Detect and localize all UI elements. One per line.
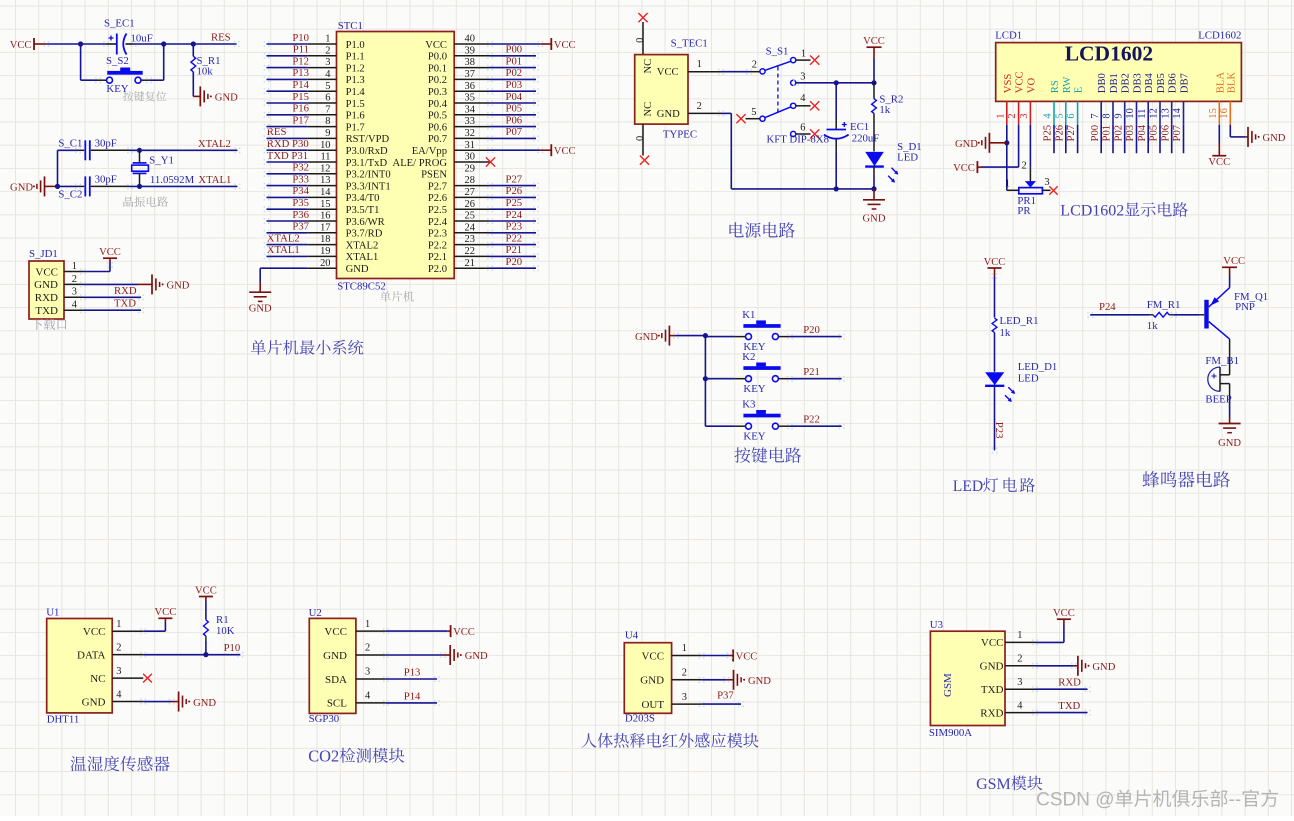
svg-text:15: 15	[1208, 108, 1219, 118]
svg-text:2: 2	[325, 45, 330, 56]
svg-text:XTAL2: XTAL2	[346, 240, 379, 251]
svg-text:12: 12	[1149, 108, 1160, 118]
svg-text:OUT: OUT	[641, 699, 664, 711]
svg-text:P22: P22	[803, 414, 820, 426]
svg-text:GND: GND	[748, 676, 771, 687]
svg-text:U4: U4	[625, 629, 639, 641]
svg-text:NC: NC	[643, 102, 654, 117]
svg-text:P3.6/WR: P3.6/WR	[346, 217, 386, 228]
svg-text:2: 2	[752, 59, 757, 70]
svg-text:GSM: GSM	[976, 776, 1011, 793]
svg-text:NC: NC	[643, 59, 654, 74]
svg-text:P25: P25	[1042, 125, 1054, 142]
svg-text:13: 13	[320, 175, 330, 186]
svg-text:LED_D1: LED_D1	[1018, 361, 1058, 373]
svg-text:1: 1	[72, 261, 77, 272]
svg-text:VCC: VCC	[863, 36, 885, 47]
svg-text:S_JD1: S_JD1	[29, 248, 58, 260]
svg-text:P2.3: P2.3	[428, 229, 447, 240]
svg-text:P2.4: P2.4	[428, 217, 448, 228]
svg-text:30pF: 30pF	[95, 174, 117, 186]
svg-text:28: 28	[465, 175, 475, 186]
svg-text:21: 21	[465, 258, 475, 269]
svg-text:32: 32	[465, 128, 475, 139]
svg-text:1: 1	[697, 59, 702, 70]
svg-text:VCC: VCC	[554, 146, 576, 157]
svg-text:RW: RW	[1062, 77, 1073, 93]
svg-text:P20: P20	[506, 256, 523, 268]
svg-text:2: 2	[116, 642, 121, 653]
svg-text:13: 13	[1160, 108, 1171, 118]
svg-text:DB2: DB2	[1121, 73, 1132, 93]
svg-text:VCC: VCC	[155, 607, 177, 618]
svg-text:P36: P36	[292, 209, 309, 221]
svg-text:VCC: VCC	[657, 67, 679, 78]
svg-text:24: 24	[465, 222, 476, 233]
svg-text:VCC: VCC	[953, 163, 975, 174]
svg-text:P10: P10	[292, 32, 309, 44]
svg-text:ALE/ PROG: ALE/ PROG	[393, 158, 448, 169]
svg-text:36: 36	[465, 81, 475, 92]
svg-text:1: 1	[682, 643, 687, 654]
svg-text:7: 7	[325, 104, 330, 115]
svg-text:P0.4: P0.4	[428, 99, 448, 110]
svg-text:35: 35	[465, 93, 475, 104]
svg-text:4: 4	[325, 69, 331, 80]
svg-text:P3.4/T0: P3.4/T0	[346, 193, 380, 204]
svg-text:GND: GND	[635, 332, 658, 343]
svg-text:KEY: KEY	[743, 383, 765, 395]
svg-text:39: 39	[465, 45, 475, 56]
svg-text:DB7: DB7	[1180, 73, 1191, 93]
svg-text:DB6: DB6	[1168, 73, 1179, 93]
svg-text:P13: P13	[292, 67, 309, 79]
svg-text:P0.3: P0.3	[428, 87, 447, 98]
svg-text:P26: P26	[1053, 124, 1065, 141]
svg-text:30: 30	[465, 152, 475, 163]
svg-text:STC89C52: STC89C52	[337, 280, 386, 292]
svg-text:TXD P31: TXD P31	[267, 150, 308, 162]
svg-text:VCC: VCC	[453, 627, 475, 638]
svg-text:4: 4	[1043, 113, 1054, 119]
svg-text:LED: LED	[953, 478, 983, 495]
svg-text:P0.7: P0.7	[428, 134, 447, 145]
svg-text:GND: GND	[1218, 438, 1241, 449]
svg-text:P16: P16	[292, 103, 309, 115]
svg-text:XTAL2: XTAL2	[198, 138, 231, 150]
svg-text:P03: P03	[1124, 125, 1136, 142]
svg-text:23: 23	[465, 234, 475, 245]
svg-text:FM_B1: FM_B1	[1205, 355, 1239, 367]
svg-text:5: 5	[1054, 113, 1065, 118]
svg-text:5: 5	[325, 81, 330, 92]
svg-text:BEEP: BEEP	[1205, 394, 1231, 406]
svg-text:S_S1: S_S1	[766, 46, 789, 58]
svg-text:4: 4	[1017, 700, 1023, 711]
svg-text:GND: GND	[1263, 133, 1286, 144]
svg-text:0: 0	[635, 38, 646, 43]
svg-text:P03: P03	[506, 79, 523, 91]
svg-text:RES: RES	[211, 31, 231, 43]
svg-text:10: 10	[320, 140, 330, 151]
svg-text:GND: GND	[82, 696, 106, 708]
svg-text:P1.6: P1.6	[346, 111, 365, 122]
svg-text:P2.5: P2.5	[428, 205, 447, 216]
svg-text:KFT DIP-8X8: KFT DIP-8X8	[767, 133, 830, 145]
svg-text:11.0592M: 11.0592M	[150, 174, 195, 186]
svg-text:STC1: STC1	[338, 20, 363, 32]
svg-text:1k: 1k	[1147, 320, 1158, 332]
svg-text:6: 6	[800, 122, 805, 133]
svg-text:3: 3	[1044, 177, 1049, 188]
svg-text:P20: P20	[803, 324, 820, 336]
svg-text:7: 7	[1090, 113, 1101, 118]
svg-text:K1: K1	[742, 309, 755, 321]
svg-text:VCC: VCC	[83, 626, 106, 638]
svg-text:19: 19	[320, 246, 330, 257]
svg-text:P32: P32	[292, 162, 309, 174]
svg-text:P27: P27	[506, 173, 523, 185]
svg-text:U3: U3	[930, 619, 943, 631]
svg-text:P24: P24	[506, 209, 523, 221]
svg-text:P2.1: P2.1	[428, 252, 447, 263]
svg-text:1: 1	[1005, 179, 1010, 190]
svg-text:K2: K2	[742, 351, 755, 363]
svg-text:P35: P35	[292, 197, 309, 209]
svg-text:RS: RS	[1050, 80, 1061, 93]
svg-text:GND: GND	[657, 109, 680, 120]
svg-text:SCL: SCL	[327, 698, 347, 710]
svg-text:1: 1	[801, 49, 806, 60]
svg-text:P2.7: P2.7	[428, 181, 447, 192]
svg-text:PNP: PNP	[1235, 301, 1255, 313]
svg-text:P07: P07	[506, 126, 523, 138]
svg-text:P06: P06	[1159, 124, 1171, 141]
svg-text:P3.1/TxD: P3.1/TxD	[346, 158, 388, 169]
svg-text:VCC: VCC	[195, 585, 217, 596]
svg-text:P2.0: P2.0	[428, 264, 447, 275]
svg-text:GND: GND	[640, 675, 664, 687]
svg-text:XTAL1: XTAL1	[198, 174, 231, 186]
svg-text:P37: P37	[292, 221, 309, 233]
svg-text:RXD: RXD	[35, 292, 58, 304]
svg-text:16: 16	[320, 211, 330, 222]
svg-text:TXD: TXD	[114, 298, 136, 310]
svg-text:P37: P37	[717, 690, 734, 702]
svg-text:3: 3	[1019, 113, 1030, 118]
svg-text:22: 22	[465, 246, 475, 257]
svg-text:1: 1	[995, 113, 1006, 118]
svg-text:GND: GND	[323, 650, 347, 662]
svg-text:2: 2	[682, 668, 687, 679]
svg-text:NC: NC	[90, 673, 105, 685]
svg-text:DATA: DATA	[77, 650, 106, 662]
svg-text:3: 3	[365, 667, 370, 678]
svg-text:VCC: VCC	[736, 651, 758, 662]
svg-text:P12: P12	[292, 55, 309, 67]
svg-text:P21: P21	[803, 366, 820, 378]
svg-text:2: 2	[1022, 160, 1027, 171]
svg-text:33: 33	[465, 116, 475, 127]
svg-text:1k: 1k	[879, 104, 890, 116]
svg-text:RXD: RXD	[114, 285, 137, 297]
svg-text:GND: GND	[980, 661, 1004, 673]
svg-text:31: 31	[465, 140, 475, 151]
svg-text:GND: GND	[346, 264, 369, 275]
svg-text:GND: GND	[167, 281, 190, 292]
svg-text:10: 10	[1125, 108, 1136, 118]
svg-text:VCC: VCC	[425, 40, 447, 51]
svg-text:3: 3	[116, 666, 121, 677]
svg-text:5: 5	[751, 107, 756, 118]
svg-text:P01: P01	[1101, 125, 1113, 142]
svg-text:S_Y1: S_Y1	[149, 154, 174, 166]
svg-text:P33: P33	[292, 173, 309, 185]
svg-text:3: 3	[682, 692, 687, 703]
svg-text:6: 6	[325, 93, 330, 104]
svg-text:RES: RES	[267, 126, 287, 138]
svg-text:SIM900A: SIM900A	[929, 727, 972, 739]
svg-text:P07: P07	[1171, 124, 1183, 141]
svg-text:KEY: KEY	[743, 430, 765, 442]
svg-text:P24: P24	[1099, 301, 1116, 313]
svg-text:S_C2: S_C2	[58, 188, 82, 200]
svg-text:30pF: 30pF	[95, 138, 117, 150]
svg-text:BLK: BLK	[1226, 72, 1237, 94]
svg-text:P0.0: P0.0	[428, 52, 447, 63]
svg-text:VCC: VCC	[1223, 256, 1245, 267]
svg-text:DB5: DB5	[1156, 73, 1167, 93]
svg-text:1: 1	[1017, 630, 1022, 641]
svg-text:34: 34	[465, 104, 476, 115]
svg-text:GND: GND	[215, 93, 238, 104]
svg-text:GND: GND	[193, 698, 216, 709]
svg-text:E: E	[1074, 87, 1085, 93]
svg-text:1: 1	[325, 34, 330, 45]
svg-text:3: 3	[800, 72, 805, 83]
svg-text:LCD1602: LCD1602	[1065, 42, 1153, 66]
svg-text:VO: VO	[1026, 78, 1037, 94]
svg-text:DB3: DB3	[1133, 73, 1144, 93]
svg-text:P2.2: P2.2	[428, 240, 447, 251]
svg-text:20: 20	[320, 258, 330, 269]
svg-text:XTAL1: XTAL1	[346, 252, 379, 263]
svg-text:GND: GND	[34, 279, 58, 291]
svg-text:P1.4: P1.4	[346, 87, 366, 98]
svg-text:P1.7: P1.7	[346, 122, 365, 133]
svg-text:EA/Vpp: EA/Vpp	[412, 146, 447, 157]
svg-text:P3.3/INT1: P3.3/INT1	[346, 181, 391, 192]
svg-text:P27: P27	[1065, 124, 1077, 141]
svg-text:DB4: DB4	[1144, 72, 1155, 93]
svg-text:P0.2: P0.2	[428, 75, 447, 86]
svg-text:SGP30: SGP30	[309, 713, 340, 725]
svg-text:P06: P06	[506, 114, 523, 126]
svg-text:0: 0	[635, 136, 646, 141]
svg-text:P1.3: P1.3	[346, 75, 365, 86]
svg-text:P04: P04	[506, 91, 523, 103]
svg-text:15: 15	[320, 199, 330, 210]
svg-text:VCC: VCC	[641, 650, 664, 662]
svg-text:VSS: VSS	[1003, 74, 1014, 94]
svg-text:P1.0: P1.0	[346, 40, 365, 51]
svg-text:U2: U2	[309, 607, 322, 619]
svg-text:XTAL1: XTAL1	[267, 244, 300, 256]
svg-text:37: 37	[465, 69, 475, 80]
svg-text:P1.5: P1.5	[346, 99, 365, 110]
svg-text:P02: P02	[506, 67, 523, 79]
svg-text:9: 9	[325, 128, 330, 139]
svg-text:P02: P02	[1112, 125, 1124, 142]
svg-text:P13: P13	[404, 667, 421, 679]
svg-text:14: 14	[320, 187, 331, 198]
svg-text:P26: P26	[506, 185, 523, 197]
svg-text:P3.2/INT0: P3.2/INT0	[346, 170, 391, 181]
svg-text:17: 17	[320, 222, 330, 233]
svg-text:6: 6	[1066, 113, 1077, 118]
svg-text:P3.5/T1: P3.5/T1	[346, 205, 380, 216]
svg-text:LCD1: LCD1	[995, 30, 1022, 42]
svg-text:VCC: VCC	[35, 266, 58, 278]
svg-text:VCC: VCC	[324, 626, 347, 638]
svg-text:U1: U1	[46, 607, 59, 619]
svg-text:1: 1	[365, 619, 370, 630]
svg-text:8: 8	[1102, 113, 1113, 118]
svg-text:GND: GND	[1092, 662, 1115, 673]
svg-text:8: 8	[325, 116, 330, 127]
svg-text:S_TEC1: S_TEC1	[671, 38, 708, 50]
svg-text:RXD: RXD	[1058, 677, 1081, 689]
svg-text:DHT11: DHT11	[47, 714, 80, 726]
svg-text:VCC: VCC	[981, 637, 1004, 649]
svg-text:4: 4	[72, 300, 78, 311]
svg-text:10K: 10K	[216, 625, 235, 637]
svg-text:18: 18	[320, 234, 330, 245]
svg-text:XTAL2: XTAL2	[267, 232, 300, 244]
svg-text:LCD1602: LCD1602	[1198, 30, 1241, 42]
svg-text:P15: P15	[292, 91, 309, 103]
svg-text:S_S2: S_S2	[106, 55, 129, 67]
svg-text:2: 2	[697, 101, 702, 112]
svg-text:LED: LED	[1018, 373, 1039, 385]
svg-text:P14: P14	[292, 79, 309, 91]
svg-text:P0.6: P0.6	[428, 122, 447, 133]
svg-text:P0.5: P0.5	[428, 111, 447, 122]
svg-text:K3: K3	[742, 399, 755, 411]
svg-text:3: 3	[1017, 677, 1022, 688]
svg-text:P34: P34	[292, 185, 309, 197]
svg-text:P01: P01	[506, 55, 523, 67]
svg-text:DB1: DB1	[1109, 73, 1120, 93]
svg-text:--: --	[1229, 790, 1242, 811]
svg-text:38: 38	[465, 57, 475, 68]
svg-text:4: 4	[800, 93, 806, 104]
svg-text:2: 2	[1017, 654, 1022, 665]
svg-text:TXD: TXD	[1058, 700, 1080, 712]
svg-text:BLA: BLA	[1215, 72, 1226, 94]
svg-text:FM_R1: FM_R1	[1147, 299, 1181, 311]
svg-text:29: 29	[465, 163, 475, 174]
svg-text:VCC: VCC	[1053, 608, 1075, 619]
svg-text:P0.1: P0.1	[428, 63, 447, 74]
svg-text:1k: 1k	[1000, 327, 1011, 339]
svg-text:25: 25	[465, 211, 475, 222]
svg-text:9: 9	[1113, 113, 1124, 118]
svg-text:P23: P23	[506, 221, 523, 233]
svg-text:DB0: DB0	[1097, 73, 1108, 93]
svg-text:GND: GND	[10, 183, 33, 194]
svg-text:P00: P00	[1089, 125, 1101, 142]
svg-text:VCC: VCC	[99, 247, 121, 258]
svg-text:40: 40	[465, 34, 475, 45]
svg-text:P21: P21	[506, 244, 523, 256]
svg-text:12: 12	[320, 163, 330, 174]
svg-text:VCC: VCC	[10, 40, 32, 51]
svg-text:11: 11	[320, 152, 330, 163]
svg-text:P25: P25	[506, 197, 523, 209]
svg-text:RST/VPD: RST/VPD	[346, 134, 390, 145]
svg-text:P05: P05	[506, 103, 523, 115]
svg-text:P00: P00	[506, 44, 523, 56]
svg-text:26: 26	[465, 199, 475, 210]
svg-text:GND: GND	[465, 651, 488, 662]
svg-text:PSEN: PSEN	[421, 170, 447, 181]
svg-text:P3.0/RxD: P3.0/RxD	[346, 146, 388, 157]
svg-text:10k: 10k	[197, 66, 214, 78]
svg-text:P22: P22	[506, 232, 523, 244]
svg-text:220uF: 220uF	[852, 133, 880, 145]
svg-text:P05: P05	[1148, 125, 1160, 142]
svg-text:LCD1602: LCD1602	[1060, 203, 1124, 220]
svg-text:P11: P11	[293, 44, 309, 56]
svg-text:VCC: VCC	[554, 40, 576, 51]
svg-text:CSDN @: CSDN @	[1036, 790, 1114, 811]
svg-text:P17: P17	[292, 114, 309, 126]
svg-text:TYPEC: TYPEC	[663, 129, 697, 141]
svg-text:3: 3	[72, 287, 77, 298]
svg-text:4: 4	[365, 691, 371, 702]
svg-text:TXD: TXD	[35, 305, 58, 317]
svg-text:P04: P04	[1136, 124, 1148, 141]
svg-text:14: 14	[1172, 107, 1183, 118]
svg-text:P1.2: P1.2	[346, 63, 365, 74]
svg-text:4: 4	[116, 689, 122, 700]
svg-text:RXD: RXD	[980, 707, 1003, 719]
svg-text:P14: P14	[404, 690, 421, 702]
svg-text:CO2: CO2	[308, 747, 339, 766]
svg-text:P2.6: P2.6	[428, 193, 447, 204]
svg-text:2: 2	[1007, 113, 1018, 118]
svg-text:VCC: VCC	[984, 257, 1006, 268]
svg-text:D203S: D203S	[625, 712, 655, 724]
svg-text:16: 16	[1219, 108, 1230, 118]
svg-text:P1.1: P1.1	[346, 52, 365, 63]
svg-text:TXD: TXD	[981, 684, 1004, 696]
svg-text:P3.7/RD: P3.7/RD	[346, 229, 383, 240]
svg-text:VCC: VCC	[1015, 71, 1026, 93]
svg-text:GND: GND	[955, 139, 978, 150]
svg-text:27: 27	[465, 187, 475, 198]
svg-text:GND: GND	[249, 304, 272, 315]
svg-text:P23: P23	[993, 422, 1005, 439]
svg-text:10uF: 10uF	[131, 32, 153, 44]
svg-text:GND: GND	[863, 214, 886, 225]
svg-text:RXD P30: RXD P30	[267, 138, 309, 150]
svg-text:S_C1: S_C1	[58, 138, 82, 150]
svg-text:2: 2	[365, 643, 370, 654]
svg-text:GSM: GSM	[942, 673, 954, 697]
svg-text:1: 1	[116, 619, 121, 630]
